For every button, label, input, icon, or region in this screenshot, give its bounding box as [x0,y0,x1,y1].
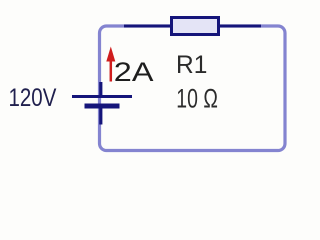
battery lead bottom [99,106,102,125]
battery plate short thick (negative) [85,104,120,109]
wire top navy segment (resistor leads) [124,25,261,28]
battery lead top [99,82,102,96]
svg-text:2A: 2A [114,57,154,87]
wire loop [100,26,286,151]
resistor R1 [172,18,219,35]
svg-text:120V: 120V [9,83,58,111]
svg-text:R1: R1 [176,52,207,79]
current arrow head [106,47,115,62]
battery plate long (positive) [72,95,132,98]
svg-text:10 Ω: 10 Ω [176,83,218,113]
current arrow shaft [110,58,113,82]
